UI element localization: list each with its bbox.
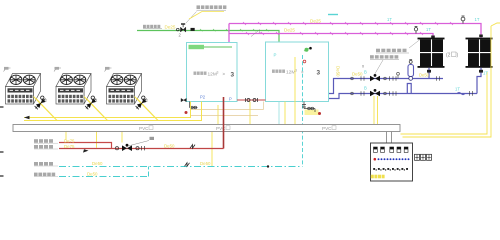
water meter M1 black block [191, 28, 195, 31]
wire magenta top header to panel2 [229, 24, 481, 39]
wire cyan hot water line [59, 166, 303, 168]
air vent A1 on top header [461, 16, 465, 24]
svg-text:PVC: PVC [139, 126, 149, 131]
svg-text:De25: De25 [165, 25, 176, 30]
pump P5 on return [115, 144, 144, 151]
union pair right [469, 91, 471, 96]
valve on equalizer [247, 99, 250, 102]
wire red return main [59, 148, 224, 150]
svg-text:>: > [223, 72, 226, 77]
svg-text:12M: 12M [208, 71, 217, 77]
fitting panel2 outlet [479, 70, 483, 73]
wire red equalizer pipe between tanks [237, 99, 266, 101]
arrow bus end [24, 116, 30, 120]
wire yellow stubs below trench [65, 132, 67, 140]
label yellow inside cabinet [371, 175, 385, 179]
left border ticks [0, 106, 4, 108]
wire yellow sensor wire right pair [403, 26, 492, 137]
label 采暖回水 strip [34, 145, 53, 149]
svg-text:De75: De75 [64, 144, 75, 149]
label cyan top small [328, 14, 338, 16]
gauge G2 on upper pipe [397, 72, 400, 78]
svg-text:1T: 1T [426, 27, 431, 32]
tank T1 insulated water tank [187, 43, 238, 102]
label 采暖供水 strip [34, 139, 53, 143]
svg-text:3: 3 [317, 70, 321, 77]
pump P3 on upper pipe [351, 74, 396, 81]
union at panel1 drop [436, 76, 438, 81]
switch row marks [373, 168, 408, 171]
magenta insulation ticks top header [243, 22, 453, 25]
svg-text:P2: P2 [200, 95, 206, 100]
expansion tank ET1 [408, 60, 414, 81]
svg-text:P: P [229, 97, 232, 102]
svg-text:(2: (2 [446, 53, 451, 59]
wire cyan cold water line [59, 176, 149, 178]
leader to collector label [409, 40, 420, 49]
valve V2 left of tank1 [181, 98, 186, 101]
tank T1 water level [189, 46, 233, 48]
svg-text:De50: De50 [336, 66, 341, 77]
wire cyan riser join [148, 167, 150, 177]
svg-text:3: 3 [231, 72, 235, 79]
svg-text:De25: De25 [284, 27, 295, 32]
label tank1 12M3 [194, 72, 207, 75]
leader from pump P3 [375, 60, 384, 75]
pipe trench [13, 125, 400, 132]
fitting panel1 outlet [427, 70, 431, 73]
tag 1 with leader [128, 141, 149, 147]
wire red riser from tank1 [223, 97, 225, 149]
air vent A2 on second header [414, 27, 417, 34]
reducer at tank2 wall [318, 96, 322, 99]
wire upper blue pipe tank2 to panel1 [329, 79, 443, 94]
svg-text:1T: 1T [475, 17, 480, 22]
svg-text:1T: 1T [483, 71, 488, 76]
fitting RN [185, 163, 190, 167]
svg-text:De25: De25 [310, 19, 321, 24]
valve V1 with T-handle on green main [177, 24, 186, 32]
svg-text:De50: De50 [419, 72, 430, 77]
svg-text:1T: 1T [387, 17, 392, 22]
wire yellow sensor tank2 [294, 57, 296, 124]
indicator red [374, 158, 377, 161]
wire cyan dashed level line tank2 to row3 [302, 55, 304, 167]
svg-text:3: 3 [217, 70, 219, 74]
wire panel2 down pipe [477, 68, 481, 94]
svg-text:12M: 12M [286, 69, 295, 75]
label 恒温恒压阀 (gray strip) [197, 5, 227, 9]
wire magenta riser from tank1 [228, 24, 230, 44]
label 自来水给水 strip [34, 173, 55, 177]
control cabinet box [371, 143, 413, 181]
flex connector on lower pipe [457, 92, 465, 94]
solar collector SC1 [418, 38, 445, 68]
svg-text:De50: De50 [87, 172, 98, 177]
svg-text:PVC: PVC [216, 126, 226, 131]
wire pale cyan sensor under tank2 [278, 102, 280, 125]
wire yellow supply bus [24, 102, 191, 118]
svg-text:De50: De50 [92, 161, 103, 166]
red level mark tank2 [303, 60, 306, 63]
svg-text:1T: 1T [455, 87, 460, 92]
float valve FV1 in tank2 [304, 49, 309, 52]
heat pump unit HP2 [54, 67, 108, 121]
wire magenta second header to panel1 [229, 34, 433, 39]
svg-text:P: P [274, 53, 277, 58]
heat pump unit HP1 [4, 67, 58, 121]
label 太阳能集热板 (gray strip) [376, 49, 407, 52]
pump P4 on lower pipe [351, 89, 396, 96]
heat pump unit HP3 [105, 67, 159, 121]
leader to thermostatic valve label [186, 12, 197, 24]
svg-text:De50: De50 [352, 72, 363, 77]
svg-text:De50: De50 [200, 161, 211, 166]
wire yellow return bus [24, 102, 202, 121]
wire panel1 down pipe [428, 68, 430, 79]
breaker row [374, 147, 409, 152]
wire tap water main green pipe [137, 31, 307, 52]
magenta insulation ticks second header [246, 32, 423, 35]
wire yellow sensor under tanks [249, 102, 251, 125]
svg-text:De75: De75 [64, 138, 75, 143]
label 太阳能循环泵 (gray strip) [370, 55, 398, 58]
tank2 drain D2 [305, 110, 319, 116]
svg-text:B: B [364, 85, 367, 90]
conduit stem to control panel [386, 132, 388, 144]
node joint dot [267, 165, 269, 167]
tank T2 insulated water tank [266, 42, 329, 102]
fitting at panel2 inlet [479, 35, 483, 38]
svg-text:B: B [364, 69, 367, 74]
wire lower blue pipe tank2 to panel2 [329, 94, 477, 99]
fitting at panel1 inlet [431, 36, 435, 39]
flow arrow A [83, 149, 89, 152]
svg-text:PVC: PVC [322, 126, 332, 131]
svg-text:De50: De50 [164, 143, 175, 148]
fitting RJ [190, 145, 195, 149]
expansion loop on lower pipe [407, 84, 411, 94]
label 电控柜 [415, 154, 432, 160]
wire yellow leader [189, 12, 224, 20]
solar collector SC2 [466, 38, 493, 68]
label tank2 12M3 [272, 70, 285, 73]
wire yellow sensor wires from pumps to trench [373, 96, 375, 124]
wire red supply branch [59, 143, 112, 149]
wire green pipe ticks [200, 29, 269, 31]
indicator blue dots [378, 158, 410, 160]
tag 1 on second header [251, 31, 258, 37]
tank1 drain D1 [190, 102, 198, 109]
label 自来水进水 (gray strip) [143, 25, 160, 28]
label 生活热水 strip [34, 162, 53, 166]
wire tan pipes under tanks [190, 109, 264, 111]
